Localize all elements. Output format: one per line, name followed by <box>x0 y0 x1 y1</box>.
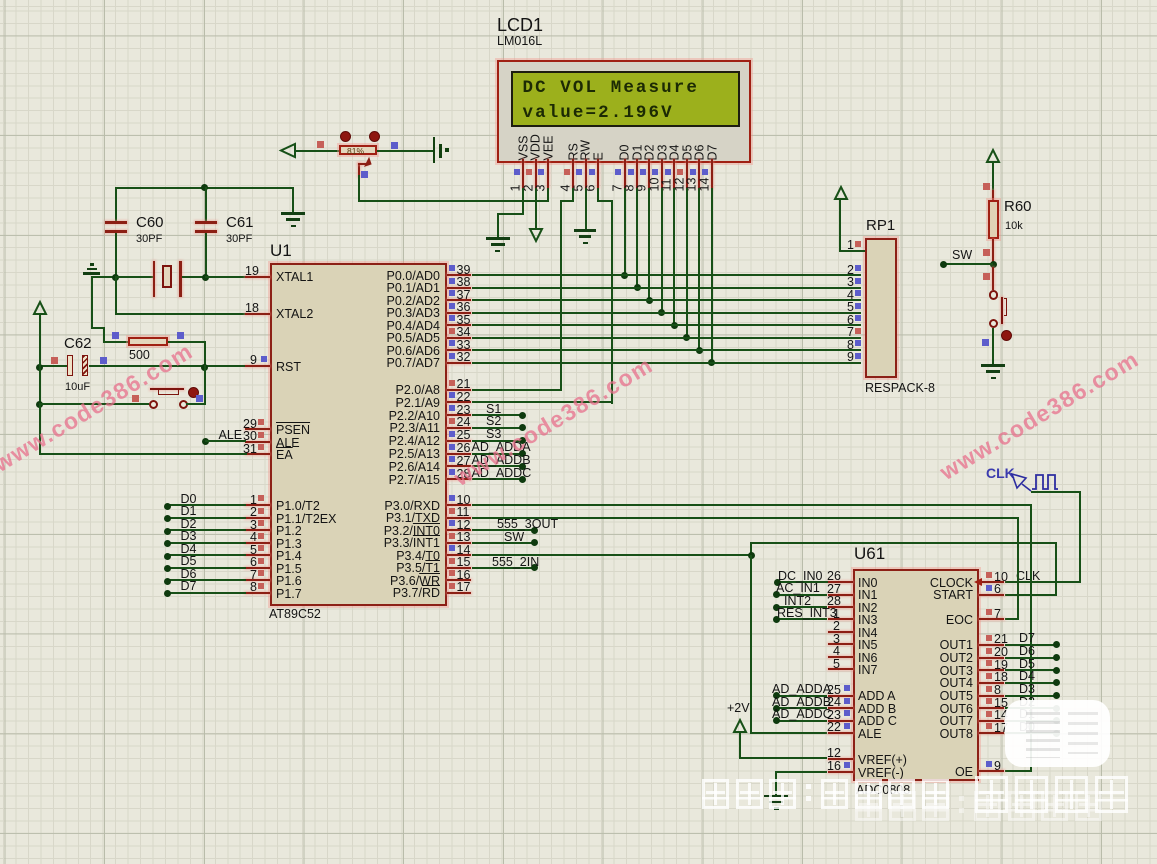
marker square right of button <box>196 395 203 402</box>
LCD pin name D5 <box>681 145 694 161</box>
wire RW pin5 to ground <box>585 188 587 230</box>
U61 pin 25 ADD A net AD_ADDA <box>828 695 853 697</box>
resistor R60 10k <box>988 200 999 239</box>
capacitor C60 30PF <box>115 187 117 222</box>
RP1 pin 5 <box>847 301 854 314</box>
watermark www.code386.com right <box>936 347 1143 484</box>
input terminal arrow left of potentiometer <box>280 143 296 158</box>
wire P0.7 to RP1 <box>472 362 862 364</box>
U61 pin 3 IN5 <box>828 643 853 645</box>
LCD pin name E <box>592 152 605 160</box>
net D2 wire on P1.2 <box>166 529 246 531</box>
wire ground to XTAL junction <box>91 276 117 278</box>
junction D6/P0.6 <box>696 347 703 354</box>
U61 pin 18 OUT4 net D4 <box>979 682 1005 684</box>
ground at LCD VSS <box>486 237 510 240</box>
wire RST node down to button row <box>39 365 41 405</box>
U1 pin 24 P2.3/A11 net S2 <box>447 427 472 429</box>
U1 pin 4 P1.3 <box>245 542 270 544</box>
U1 pin 11 P3.1/TXD <box>447 517 472 519</box>
wire D3 pin10 down to P0.3 <box>661 188 663 314</box>
wire clock generator to U61 CLOCK <box>1031 491 1081 493</box>
wire XTAL2 from junction <box>115 276 117 315</box>
IC U61 ADC0808 body <box>853 569 979 781</box>
wire arrow to potentiometer <box>294 150 340 152</box>
U1 pin 29 PSEN <box>245 428 270 430</box>
junction P3.4/START/ALE <box>748 552 755 559</box>
wire +2V to VREF(+) <box>739 732 741 759</box>
U61 pin 5 IN7 <box>828 668 853 670</box>
watermark www.code386.com left <box>0 339 197 476</box>
net D3 wire on P1.3 <box>166 542 246 544</box>
U61 pin 22 ALE <box>828 732 853 734</box>
LCD pin 14 <box>711 159 713 188</box>
wire P3.0 down to OE <box>1030 504 1032 772</box>
net label ALE stub <box>202 438 209 445</box>
U1 pin 15 P3.5/T1 net 555_2IN <box>447 567 472 569</box>
U61 pin 7 EOC <box>979 618 1005 620</box>
switch toggle dot <box>1001 330 1012 341</box>
U61 pin 14 OUT7 net D1 <box>979 720 1005 722</box>
marker square below wiper <box>361 171 368 178</box>
marker square right of potentiometer <box>391 142 398 149</box>
wire +5V to C62 left <box>39 365 67 367</box>
wire P0.5 to RP1 <box>472 337 862 339</box>
net D7 wire on P1.7 <box>166 592 246 594</box>
U61 pin 10 CLOCK <box>979 581 1005 583</box>
wire RP1 pin1 to power <box>839 199 841 252</box>
potentiometer adjust button plus <box>369 131 380 142</box>
U1 pin 31 EA <box>245 453 270 455</box>
wire P0.0 to RP1 <box>472 274 862 276</box>
wire XTAL1 to pin 19 <box>205 276 245 278</box>
U61 pin 2 IN4 <box>828 631 853 633</box>
junction SW node <box>990 261 997 268</box>
LCD pin name D7 <box>706 145 719 161</box>
LCD pin name RS <box>567 143 580 160</box>
U1 pin 32 P0.7/AD7 <box>447 362 472 364</box>
wire button node down to EA <box>39 403 41 455</box>
U1 pin 33 P0.6/AD6 <box>447 349 472 351</box>
marker square above switch <box>983 273 990 280</box>
clock generator CLK label <box>986 465 1015 481</box>
ground at top rail <box>281 212 305 215</box>
LCD pin name D2 <box>644 145 657 161</box>
wire R60 bottom to SW node <box>992 239 994 264</box>
LCD pin name VSS <box>517 135 530 160</box>
net label CLK on CLOCK wire <box>1016 570 1040 583</box>
wire P0.1 to RP1 <box>472 287 862 289</box>
U1 pin 8 P1.7 <box>245 592 270 594</box>
U61 value label ADC0808 <box>856 784 910 797</box>
RP1 pin 9 <box>847 351 854 364</box>
U1 pin 39 P0.0/AD0 <box>447 274 472 276</box>
junction XTAL2 node <box>112 274 119 281</box>
U1 pin 10 P3.0/RXD <box>447 504 472 506</box>
RP1 pin 6 <box>847 314 854 327</box>
U1 pin 22 P2.1/A9 <box>447 401 472 403</box>
wire ground stem down to resistor 500 <box>91 276 93 329</box>
U61 pin 19 OUT3 net D5 <box>979 669 1005 671</box>
wire junction down to U61 ALE <box>750 555 752 734</box>
net D4 wire on P1.4 <box>166 554 246 556</box>
junction D3/P0.3 <box>658 309 665 316</box>
U1 pin 6 P1.5 <box>245 567 270 569</box>
capacitor C62 10uF polarized <box>64 336 92 351</box>
reset button toggle dot <box>188 387 199 398</box>
LCD pin 10 <box>661 159 663 188</box>
wire P3.1 to U61 EOC <box>472 517 1020 519</box>
power terminal arrow at R60 <box>986 149 1000 164</box>
junction button row left <box>36 401 43 408</box>
LCD pin 3 <box>547 159 549 188</box>
U1 pin 21 P2.0/A8 <box>447 389 472 391</box>
U1 pin 9 RST <box>245 365 270 367</box>
wire D5 pin12 down to P0.5 <box>686 188 688 339</box>
marker square left of button <box>132 395 139 402</box>
LCD pin 12 <box>686 159 688 188</box>
U1 pin 17 P3.7/RD <box>447 592 472 594</box>
U61 reference label <box>854 545 885 562</box>
wire P2.1 to LCD E <box>472 401 613 403</box>
wire D2 pin9 down to P0.2 <box>648 188 650 301</box>
LCD text line 2 <box>523 103 674 123</box>
U1 pin 18 XTAL2 <box>245 313 270 315</box>
crystal X1 <box>115 276 154 278</box>
wire potentiometer right to battery cell <box>377 150 434 152</box>
marker square above resistor right <box>177 332 184 339</box>
U1 pin 35 P0.4/AD4 <box>447 324 472 326</box>
wire to reset button <box>39 403 149 405</box>
RP1 value label RESPACK-8 <box>865 382 935 395</box>
wire VREF(-) to ground <box>775 771 827 773</box>
U61 pin 4 IN6 <box>828 656 853 658</box>
ground below VREF(-) <box>764 795 788 798</box>
white watermark text large chars <box>975 776 1135 813</box>
wire resistor 500 right to RST node <box>168 341 206 343</box>
U1 pin 7 P1.6 <box>245 579 270 581</box>
U61 pin 8 OUT5 net D3 <box>979 695 1005 697</box>
LCD pin 9 <box>648 159 650 188</box>
U1 pin 14 P3.4/T0 <box>447 554 472 556</box>
LCD text line 1 <box>523 78 699 98</box>
wire P0.3 to RP1 <box>472 312 862 314</box>
U1 pin 36 P0.3/AD3 <box>447 312 472 314</box>
LCD pin name D0 <box>619 145 632 161</box>
U1 pin 5 P1.4 <box>245 554 270 556</box>
U1 pin 34 P0.5/AD5 <box>447 337 472 339</box>
wire P0.2 to RP1 <box>472 299 862 301</box>
U61 pin 21 OUT1 net D7 <box>979 644 1005 646</box>
marker square left of potentiometer <box>317 141 324 148</box>
wire P3.0 to U61 OE <box>472 504 1032 506</box>
U1 value label AT89C52 <box>269 608 321 621</box>
LCD pin 11 <box>673 159 675 188</box>
resistor pack RP1 RESPACK-8 body <box>865 238 897 378</box>
wire switch to ground <box>992 328 994 366</box>
U1 pin 16 P3.6/WR <box>447 579 472 581</box>
white watermark text row 1 <box>702 779 955 809</box>
ground left of crystal <box>83 272 100 275</box>
U1 pin 2 P1.1/T2EX <box>245 517 270 519</box>
U61 pin 15 OUT6 net D2 <box>979 707 1005 709</box>
U61 pin 28 IN2 net INT2 <box>828 606 853 608</box>
wire power to R60 <box>992 162 994 192</box>
U1 pin 28 P2.7/A15 net AD_ADDC <box>447 478 472 480</box>
ground at LCD RW <box>574 229 596 232</box>
U1 pin 26 P2.5/A13 net AD_ADDA <box>447 453 472 455</box>
junction D4/P0.4 <box>671 322 678 329</box>
wire D6 pin13 down to P0.6 <box>698 188 700 351</box>
reset push button <box>149 400 158 409</box>
RP1 pin 4 <box>847 289 854 302</box>
U61 pin 16 VREF(-) <box>828 771 853 773</box>
wire D4 pin11 down to P0.4 <box>673 188 675 326</box>
U61 pin 26 IN0 net DC_IN0 <box>828 581 853 583</box>
junction D2/P0.2 <box>646 297 653 304</box>
wire D7 pin14 down to P0.7 <box>711 188 713 364</box>
net D0 wire on P1.0 <box>166 504 246 506</box>
U61 pin 6 START <box>979 594 1005 596</box>
LCD pin name VEE <box>542 135 555 160</box>
U61 pin 24 ADD B net AD_ADDB <box>828 707 853 709</box>
white watermark logo box <box>1005 700 1111 768</box>
wire E pin6 down to P2.1 <box>597 188 599 202</box>
wire VEE pin3 to potentiometer wiper <box>547 188 549 202</box>
wire SW node to switch <box>992 267 994 291</box>
U61 pin 9 OE <box>979 770 1005 772</box>
LCD LM016L value label <box>497 35 542 48</box>
LCD pin 8 <box>636 159 638 188</box>
U1 pin 38 P0.1/AD1 <box>447 287 472 289</box>
U1 pin 25 P2.4/A12 net S3 <box>447 440 472 442</box>
wire RS pin4 down to P2.0 <box>572 188 574 202</box>
U1 pin 19 XTAL1 <box>245 276 270 278</box>
junction RST left node <box>36 364 43 371</box>
U1 pin 3 P1.2 <box>245 529 270 531</box>
resistor 500 <box>128 337 168 346</box>
U61 pin 27 IN1 net AC_IN1 <box>828 594 853 596</box>
white watermark text row 2 overlap <box>855 791 1108 821</box>
junction D5/P0.5 <box>683 334 690 341</box>
junction D1/P0.1 <box>634 284 641 291</box>
junction RST right node at resistor <box>201 364 208 371</box>
RP1 pin 2 <box>847 264 854 277</box>
wire VDD pin2 down <box>535 188 537 228</box>
U61 pin 23 ADD C net AD_ADDC <box>828 720 853 722</box>
marker square left of C62 <box>51 357 58 364</box>
IC U1 AT89C52 body <box>270 263 447 606</box>
junction XTAL1 node <box>202 274 209 281</box>
capacitor C61 30PF <box>205 187 207 222</box>
power terminal +5V arrow <box>33 301 47 316</box>
push switch SW <box>989 290 998 299</box>
potentiometer RV1 body 81% <box>339 145 377 155</box>
U1 pin 37 P0.2/AD2 <box>447 299 472 301</box>
ground below switch <box>981 364 1005 367</box>
LCD pin name RW <box>580 140 593 161</box>
wire D1 pin8 down to P0.1 <box>636 188 638 289</box>
U1 pin 23 P2.2/A10 net S1 <box>447 414 472 416</box>
marker square above resistor left <box>112 332 119 339</box>
LCD pin 5 <box>585 159 587 188</box>
wire VSS pin1 to ground <box>522 188 524 215</box>
marker square right of C62 <box>100 357 107 364</box>
U1 pin 30 ALE <box>245 441 270 443</box>
net +2V power terminal <box>727 702 750 715</box>
potentiometer adjust button minus <box>340 131 351 142</box>
wire D0 pin7 down to P0.0 <box>624 188 626 276</box>
U61 pin 1 IN3 net RES_INT3 <box>828 618 853 620</box>
LCD pin name D6 <box>694 145 707 161</box>
LCD pin 1 <box>522 159 524 188</box>
U1 pin 12 P3.2/INT0 net 555_3OUT <box>447 529 472 531</box>
watermark www.code386.com center <box>450 353 657 490</box>
RP1 pin 8 <box>847 339 854 352</box>
RP1 reference label <box>866 218 895 233</box>
junction D7/P0.7 <box>708 359 715 366</box>
LCD LCD1 body <box>497 60 751 163</box>
wire P2.0 to LCD RS <box>472 389 563 391</box>
net SW wire <box>944 263 993 265</box>
power terminal arrow at RP1 pin1 <box>834 186 848 201</box>
U61 pin 17 OUT8 net D0 <box>979 732 1005 734</box>
battery cell terminal <box>433 137 436 163</box>
net D5 wire on P1.5 <box>166 567 246 569</box>
LCD pin 2 <box>535 159 537 188</box>
RP1 pin 1 <box>847 239 854 252</box>
LCD pin 6 <box>597 159 599 188</box>
U1 pin 13 P3.3/INT1 net SW <box>447 542 472 544</box>
wire RST line C62 to U1 <box>89 365 244 367</box>
U1 reference label <box>270 242 292 259</box>
marker square below R60 <box>983 249 990 256</box>
wire potentiometer wiper down <box>358 175 360 201</box>
LCD LCD1 reference label <box>497 16 543 34</box>
LCD pin name D4 <box>669 145 682 161</box>
wire P3.4 to START/ALE junction <box>472 554 753 556</box>
RP1 pin 7 <box>847 326 854 339</box>
U1 pin 27 P2.6/A14 net AD_ADDB <box>447 465 472 467</box>
LCD screen <box>511 71 741 126</box>
LCD pin name D1 <box>631 145 644 161</box>
U61 pin 20 OUT2 net D6 <box>979 657 1005 659</box>
U1 pin 1 P1.0/T2 <box>245 504 270 506</box>
wire button right up to RST <box>186 403 206 405</box>
potentiometer wiper arrow <box>358 163 360 177</box>
junction D0/P0.0 <box>621 272 628 279</box>
wire P3.1 down to EOC <box>1017 517 1019 620</box>
clock generator symbol <box>1010 472 1060 494</box>
LCD pin name VDD <box>530 134 543 160</box>
net D1 wire on P1.1 <box>166 517 246 519</box>
wire P0.6 to RP1 <box>472 349 862 351</box>
wire top rail C60/C61 to ground <box>115 187 295 189</box>
power-down terminal at VDD <box>529 228 543 242</box>
LCD pin name D3 <box>656 145 669 161</box>
wire P0.4 to RP1 <box>472 324 862 326</box>
marker square above R60 <box>983 183 990 190</box>
wire +5V arrow down to RST node <box>39 314 41 366</box>
junction C61 top <box>201 184 208 191</box>
LCD pin 13 <box>698 159 700 188</box>
LCD pin 7 <box>624 159 626 188</box>
RP1 pin 3 <box>847 276 854 289</box>
wire P3.4 jog up to START <box>750 542 752 556</box>
LCD pin 4 <box>572 159 574 188</box>
marker square left of switch <box>982 339 989 346</box>
net D6 wire on P1.6 <box>166 579 246 581</box>
U61 pin 12 VREF(+) <box>828 758 853 760</box>
